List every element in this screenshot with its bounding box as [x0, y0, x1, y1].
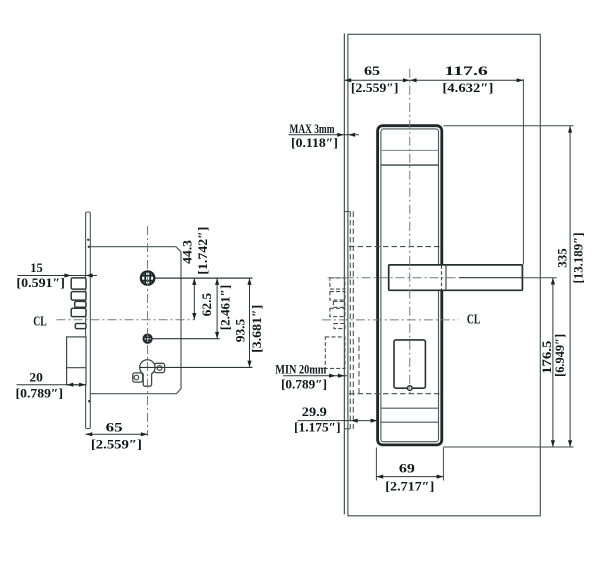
euro cylinder left tab	[133, 373, 143, 382]
svg-text:MAX 3mm: MAX 3mm	[290, 122, 335, 136]
dimension 62.5 line	[216, 278, 218, 339]
escutcheon plate outer	[378, 126, 442, 445]
key card window	[394, 340, 425, 388]
svg-text:93.5: 93.5	[233, 318, 248, 342]
svg-text:65: 65	[364, 63, 381, 78]
dimension 15 line	[18, 275, 98, 277]
svg-text:MIN 20mm: MIN 20mm	[275, 363, 326, 377]
door edge line	[343, 34, 345, 515]
svg-text:[6.949″]: [6.949″]	[552, 334, 567, 377]
extension line lever end right	[522, 277, 556, 279]
svg-text:[0.789″]: [0.789″]	[281, 376, 327, 391]
svg-text:29.9: 29.9	[302, 404, 328, 419]
dimension 29.9 leader	[298, 420, 378, 422]
hidden latch piece C (dashed)	[333, 301, 345, 307]
euro cylinder body	[140, 360, 155, 386]
euro cylinder right tab	[154, 363, 164, 372]
extension line small hole	[152, 338, 220, 340]
plate bottom section line 2	[381, 421, 439, 423]
hidden lock body top line (dashed, over plate)	[349, 246, 443, 248]
escutcheon plate inner line	[381, 129, 439, 442]
plate edge hidden behind lever (dashed)	[441, 266, 443, 291]
svg-text:20: 20	[29, 370, 43, 385]
hidden faceplate edge (dashed)	[349, 212, 351, 429]
svg-text:[1.175″]: [1.175″]	[294, 420, 341, 435]
faceplate	[86, 212, 91, 429]
hidden latch piece D (dashed)	[330, 308, 345, 316]
svg-text:[4.632″]: [4.632″]	[442, 80, 493, 95]
left view horizontal CL centerline	[57, 319, 195, 321]
cylinder hole (knurled)	[141, 271, 154, 284]
top dimension line 65 / 117.6	[344, 79, 523, 81]
dimension 65 left line	[86, 433, 148, 435]
svg-text:[13.189″]: [13.189″]	[570, 233, 585, 284]
dimension 176.5 line	[552, 278, 554, 447]
hidden latch piece B (dashed)	[330, 292, 345, 301]
svg-text:[0.118″]: [0.118″]	[291, 135, 338, 150]
svg-text:[0.591″]: [0.591″]	[16, 275, 65, 290]
small hole (knurled)	[144, 335, 152, 343]
svg-text:[2.717″]: [2.717″]	[385, 478, 434, 493]
faceplate screw marks	[87, 239, 89, 241]
extension line cylinder center	[155, 277, 253, 279]
extension line lever end top	[522, 79, 524, 265]
hidden latch piece E (dashed)	[334, 324, 345, 329]
plate vertical centerline	[409, 69, 411, 394]
deadbolt box	[67, 337, 86, 385]
svg-text:CL: CL	[467, 311, 481, 326]
svg-text:44.3: 44.3	[180, 239, 195, 264]
svg-text:[0.789″]: [0.789″]	[16, 386, 64, 401]
left view vertical centerline	[147, 226, 149, 436]
door face rectangle	[348, 34, 540, 516]
plate bottom section line 1	[381, 407, 439, 409]
svg-text:[2.461″]: [2.461″]	[217, 285, 232, 331]
plate top section line 1	[381, 149, 439, 151]
lock CL centerline right	[322, 319, 459, 321]
hidden euro cylinder (dashed)	[325, 337, 345, 369]
MAX 3mm leader	[289, 134, 359, 136]
svg-text:62.5: 62.5	[199, 292, 214, 316]
dimension 44.3 line	[193, 278, 195, 320]
lever neck line	[445, 265, 447, 290]
latch piece B	[71, 292, 86, 301]
dimension 20 line	[17, 384, 87, 386]
latch piece A	[71, 278, 86, 289]
dimension 93.5 line	[249, 278, 251, 367]
lever handle	[389, 265, 523, 290]
dimension 69 line	[376, 476, 443, 478]
svg-text:CL: CL	[33, 313, 47, 328]
svg-text:[2.559″]: [2.559″]	[351, 80, 399, 95]
svg-text:69: 69	[399, 460, 416, 475]
lever horizontal centerline	[328, 277, 460, 279]
extension line euro cylinder	[140, 366, 253, 368]
lever grip mid line	[459, 277, 522, 279]
latch piece E	[75, 324, 86, 329]
svg-text:[3.681″]: [3.681″]	[249, 305, 264, 353]
svg-text:[2.559″]: [2.559″]	[91, 437, 142, 452]
extension line plate top right	[443, 125, 573, 127]
extension line plate bottom right	[443, 446, 573, 448]
MIN 20mm leader	[283, 375, 347, 377]
euro cylinder right tab screw	[157, 366, 162, 371]
key cylinder dot	[408, 386, 413, 391]
hidden cylinder depth line (dashed)	[358, 337, 360, 394]
svg-text:[1.742″]: [1.742″]	[195, 227, 210, 275]
latch piece C	[75, 301, 86, 307]
svg-text:65: 65	[106, 420, 124, 435]
hidden lock body bottom line (dashed, over plate)	[349, 393, 443, 395]
svg-text:15: 15	[30, 260, 43, 275]
latch piece D	[71, 308, 86, 316]
dimension 335 line	[569, 126, 571, 447]
svg-text:117.6: 117.6	[444, 63, 488, 78]
plate top section line 2	[381, 164, 439, 166]
svg-text:335: 335	[555, 248, 570, 268]
deadbolt inner line	[67, 367, 86, 369]
hidden latch piece A (dashed)	[330, 278, 345, 289]
dimension 69 extension lines	[375, 448, 377, 481]
lock body outline	[90, 247, 181, 394]
